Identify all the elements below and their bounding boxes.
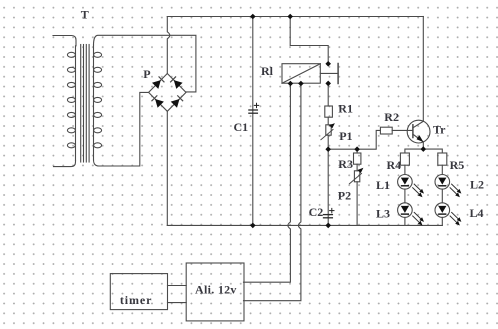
svg-text:R1: R1 — [338, 102, 353, 116]
wire C1 branch vertical — [252, 17, 254, 226]
wire R4 to L1 — [404, 165, 406, 174]
svg-text:Ali. 12v: Ali. 12v — [195, 283, 236, 297]
junction node top rail / contact feed — [287, 14, 293, 20]
resistor R5 body — [438, 153, 447, 165]
resistor R4 body — [400, 153, 409, 165]
wire P1 to junction — [327, 135, 329, 149]
LED L3 triangle and bar — [401, 206, 409, 213]
LED L4 circle — [435, 203, 450, 218]
potentiometer P1 body — [326, 125, 331, 135]
wire secondary top to bridge right vertex — [94, 35, 196, 92]
transformer T primary top lead — [53, 36, 76, 46]
wire R3 branch down — [356, 149, 358, 153]
bottom rail wire — [167, 224, 442, 226]
relay Rl coil box — [282, 64, 320, 83]
transformer T primary winding loops — [67, 52, 75, 148]
wire R5 to L2 — [441, 165, 443, 174]
diode bridge bottom-left (bar) — [152, 96, 157, 101]
wire P2 to bottom rail — [356, 182, 358, 226]
wire contact feed from top rail — [290, 17, 328, 64]
diode bridge top-left triangle — [152, 80, 161, 89]
potentiometer P1 arrow — [321, 130, 333, 140]
svg-text:R5: R5 — [450, 158, 465, 172]
wire timer to Ali upper — [168, 285, 187, 287]
potentiometer P1 arrowhead — [329, 123, 335, 128]
junction node top rail / C1 — [250, 14, 256, 20]
svg-text:L1: L1 — [376, 178, 390, 192]
svg-text:T: T — [81, 7, 89, 21]
svg-text:P: P — [143, 67, 150, 81]
svg-text:L4: L4 — [470, 206, 484, 220]
svg-text:P1: P1 — [339, 129, 352, 143]
resistor R3 body — [354, 153, 361, 164]
junction node P1 bottom — [325, 146, 331, 152]
junction node contact top — [325, 61, 331, 67]
LED L3 emission arrows — [413, 212, 422, 223]
capacitor C1 plus sign — [254, 103, 258, 107]
wire L4 to bottom rail — [441, 217, 443, 225]
transistor Tr base bar — [412, 125, 414, 138]
LED L2 emission arrows — [450, 184, 459, 195]
transformer T primary winding line — [75, 46, 77, 161]
transformer T primary bottom lead — [54, 161, 76, 167]
LED L1 triangle and bar — [401, 178, 409, 185]
diode bridge top-right triangle — [174, 80, 183, 89]
relay contact bar — [337, 64, 339, 84]
svg-text:L2: L2 — [470, 177, 484, 191]
LED L2 circle — [435, 175, 450, 190]
wire relay coil lead 2 with hop at bottom rail — [244, 84, 301, 301]
LED L3 circle — [398, 203, 413, 218]
transistor Tr emitter lead — [413, 134, 423, 149]
transistor Tr circle — [407, 120, 430, 143]
junction node R3 top — [354, 146, 360, 152]
wire C2 branch — [327, 149, 329, 225]
wire R3 to P2 — [356, 164, 358, 171]
LED L4 triangle and bar — [438, 206, 446, 213]
wire R1 to P1 — [327, 117, 329, 125]
transformer T core — [81, 45, 89, 163]
wire relay coil lead 1 with hop at bottom rail — [244, 84, 291, 283]
svg-text:C1: C1 — [234, 120, 249, 134]
junction node emitter — [421, 146, 427, 152]
LED L1 circle — [398, 175, 413, 190]
capacitor C1 plates — [249, 110, 258, 113]
diode bridge bottom-right (bar) — [178, 96, 183, 101]
wire timer to Ali lower — [168, 302, 187, 304]
wire secondary bottom to bridge left vertex — [94, 92, 149, 166]
wire L3 to bottom rail — [404, 217, 406, 225]
wire bridge top vertex up with hop over secondary wire — [167, 17, 170, 74]
resistor R1 body — [325, 106, 333, 117]
wire L2 to L4 — [441, 189, 443, 203]
svg-text:R4: R4 — [387, 158, 402, 172]
potentiometer P2 body — [354, 171, 359, 182]
junction node C1 bottom rail — [250, 223, 256, 229]
diode bridge bottom-left triangle — [155, 99, 164, 108]
wire bridge bottom vertex down — [166, 111, 168, 225]
svg-text:Rl: Rl — [261, 64, 274, 78]
relay Rl diagonal — [282, 64, 320, 83]
diode bridge top-right (bar) — [171, 77, 176, 82]
svg-text:L3: L3 — [376, 207, 390, 221]
wire R2 to transistor base — [392, 129, 413, 131]
resistor R2 body — [380, 127, 392, 134]
wire collector drop — [422, 17, 424, 122]
transformer T secondary winding line — [93, 45, 95, 160]
capacitor C2 plates — [324, 215, 333, 218]
LED L1 emission arrows — [413, 184, 422, 195]
transformer T secondary winding loops — [94, 52, 102, 148]
svg-text:P2: P2 — [338, 189, 351, 203]
wire junction horizontal to R2 riser — [328, 130, 380, 149]
top rail wire — [167, 16, 423, 18]
wire contact to R1 — [327, 83, 329, 106]
junction node contact bottom — [325, 81, 331, 87]
bridge rectifier P diamond — [149, 74, 186, 112]
junction node C2 bottom rail — [325, 223, 331, 229]
svg-text:R2: R2 — [384, 110, 399, 124]
relay contact actuator link — [320, 72, 338, 74]
junction node relay coil 1 — [288, 81, 294, 87]
svg-text:C2: C2 — [309, 205, 324, 219]
LED L4 emission arrows — [450, 212, 459, 223]
wire L1 to L3 — [404, 189, 406, 203]
Ali 12v box — [186, 263, 244, 321]
svg-text:timer: timer — [120, 293, 152, 307]
svg-text:Tr: Tr — [433, 123, 446, 137]
LED L2 triangle and bar — [438, 178, 446, 185]
transistor Tr collector lead — [413, 121, 423, 128]
wire emitter T-bar to R4 R5 — [405, 149, 442, 153]
junction node relay coil 2 — [298, 81, 304, 87]
svg-text:R3: R3 — [338, 157, 353, 171]
capacitor C2 plus sign — [330, 208, 334, 212]
diode bridge bottom-right triangle — [171, 99, 180, 108]
diode bridge top-left (bar) — [159, 77, 164, 82]
potentiometer P2 arrow — [349, 174, 361, 184]
timer box — [110, 274, 167, 310]
potentiometer P2 arrowhead — [357, 168, 363, 173]
transistor Tr emitter arrowhead — [417, 135, 424, 142]
